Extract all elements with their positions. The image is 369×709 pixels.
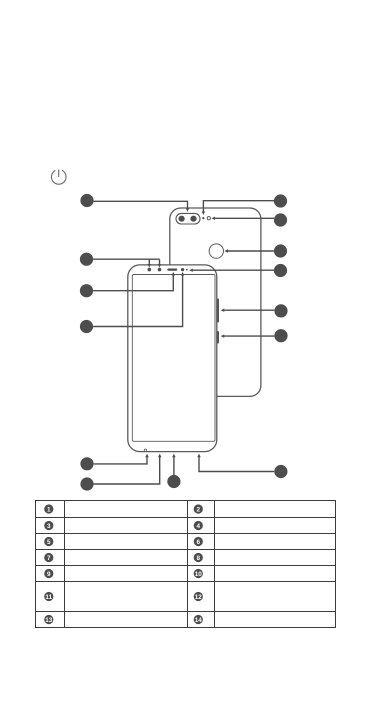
svg-text:10: 10: [195, 571, 203, 578]
front camera dot: [181, 268, 184, 271]
badge 13: [44, 615, 53, 624]
callout dot L3: [80, 284, 93, 297]
front phone outline: [128, 265, 217, 452]
lead R3 to fingerprint sensor: [228, 250, 274, 252]
badge 9: [44, 569, 53, 578]
svg-text:9: 9: [47, 571, 51, 578]
badge 6: [194, 537, 203, 546]
lead L5 to headphone jack: [94, 457, 147, 464]
callout dot L6: [80, 477, 93, 490]
svg-text:5: 5: [47, 539, 51, 546]
svg-text:2: 2: [197, 506, 201, 513]
callout dot R6: [274, 329, 287, 342]
rear camera module: [176, 213, 200, 224]
earpiece: [167, 269, 177, 271]
badge 7: [44, 553, 53, 562]
noise mic dot: [186, 269, 188, 271]
sensor dot A: [148, 268, 152, 272]
rear camera lens 1: [179, 216, 185, 222]
lead L2 to sensor dots: [93, 259, 159, 264]
badge 1: [44, 504, 53, 513]
lead R7 to speaker: [199, 457, 274, 472]
callout dot bottom center: [167, 475, 180, 488]
badge 11: [44, 592, 53, 601]
badge 5: [44, 537, 53, 546]
lead R1 to flash: [203, 201, 274, 212]
callout dot R1: [274, 194, 287, 207]
headphone jack: [144, 449, 146, 451]
callout dot R7: [274, 465, 287, 478]
svg-text:8: 8: [197, 555, 201, 562]
callout dot R5: [274, 304, 287, 317]
svg-text:7: 7: [47, 555, 51, 562]
back phone outline: [170, 208, 261, 396]
rear camera lens 2: [190, 216, 196, 222]
badge 4: [194, 521, 203, 530]
svg-text:3: 3: [47, 523, 51, 530]
callout dot L5: [80, 457, 93, 470]
lead L3 to earpiece: [93, 276, 173, 291]
svg-text:12: 12: [195, 594, 203, 601]
svg-text:1: 1: [47, 506, 51, 513]
sensor dot B: [158, 268, 162, 272]
lead R2 to laser sensor: [215, 217, 274, 219]
lead L6 to bottom mic: [94, 457, 160, 484]
table: [36, 501, 336, 628]
callout dot L1: [80, 194, 93, 207]
badge 14: [194, 615, 203, 624]
svg-text:14: 14: [195, 617, 203, 624]
fingerprint sensor: [209, 244, 223, 258]
badge 3: [44, 521, 53, 530]
power icon: [51, 170, 66, 185]
lead R5 to volume key: [224, 309, 274, 311]
power key: [217, 331, 219, 344]
svg-text:11: 11: [45, 594, 52, 601]
callout dot L2: [80, 253, 93, 266]
volume key: [217, 299, 219, 323]
laser sensor circle: [207, 217, 210, 220]
svg-text:6: 6: [197, 539, 201, 546]
svg-text:4: 4: [197, 523, 201, 530]
badge 12: [194, 592, 203, 601]
callout dot R3: [274, 244, 287, 257]
svg-text:13: 13: [45, 617, 53, 624]
table badges: [44, 504, 203, 624]
callout dot R2: [274, 213, 287, 226]
badge 2: [194, 504, 203, 513]
callout dot L4: [80, 320, 93, 333]
screen: [132, 275, 215, 442]
badge 10: [194, 569, 203, 578]
callout dot R4: [274, 264, 287, 277]
flash dot: [202, 217, 204, 219]
lead L1 to rear camera: [94, 201, 188, 208]
lead R6 to power key: [224, 335, 274, 337]
lead R4 to noise mic: [192, 269, 274, 271]
lead bottom center to usb port: [173, 457, 175, 475]
badge 8: [194, 553, 203, 562]
lead L4 to front camera: [93, 276, 183, 327]
